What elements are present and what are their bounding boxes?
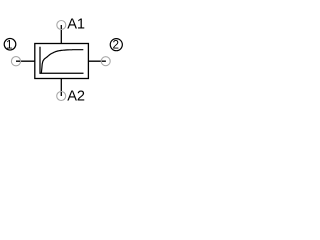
- terminal A1 connection point (gray circle): [57, 21, 66, 30]
- svg-text:A1: A1: [67, 17, 85, 33]
- svg-text:A2: A2: [67, 89, 85, 105]
- wire: top pin A1: [60, 25, 62, 44]
- characteristic axes (L-shape inside body): [40, 47, 84, 74]
- wire: bottom pin A2: [60, 79, 62, 97]
- pin number badge 1: [4, 38, 16, 51]
- pin number badge 2: [110, 39, 122, 52]
- terminal 1 connection point (gray circle): [11, 57, 20, 66]
- svg-text:1: 1: [6, 38, 13, 51]
- terminal 2 connection point (gray circle): [101, 57, 110, 66]
- component body: outer rectangle: [35, 44, 89, 79]
- svg-text:2: 2: [112, 39, 119, 52]
- wire: left pin from terminal 1 to component body: [16, 60, 35, 62]
- terminal A2 connection point (gray circle): [57, 92, 66, 101]
- characteristic exponential saturation curve: [41, 50, 83, 74]
- wire: right pin from component body to terminal 2: [88, 60, 106, 62]
